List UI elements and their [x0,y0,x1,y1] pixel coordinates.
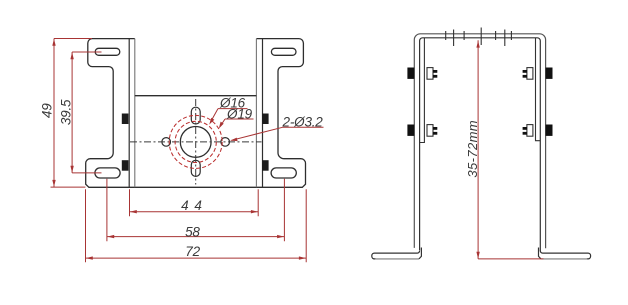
left web edge line [420,38,425,143]
vertical center line [195,99,197,185]
dim 49 extension bottom [51,186,86,188]
bolt right row2 nut [523,125,533,137]
dim 58 line [107,236,285,238]
right plate edge vertical line [255,39,257,188]
dim 39.5 line [71,52,73,173]
leader 2-dia3.2 [232,127,324,140]
leader dia16 [210,109,247,123]
svg-text:58: 58 [185,224,200,239]
right foot corner chamfer [539,248,541,259]
dim 39.5 extension bottom [72,172,101,174]
right wing top slot [271,48,296,55]
dim 72 line [86,257,307,259]
top mounting slot [191,107,200,124]
bolt circle dia 19 dashed [169,115,222,168]
left foot corner chamfer [419,248,421,259]
dim 58 extensions [107,179,285,241]
bracket outer contour (wings + feet + bottom) [86,39,306,188]
dim 72 extensions [86,189,307,262]
left wing clamp tab lower [122,160,129,171]
svg-text:49: 49 [40,103,55,118]
right foot bottom surface [541,258,587,260]
plate top edge [135,95,257,97]
svg-text:4 4: 4 4 [181,198,203,213]
bolt circle dia 16 dashed [175,121,216,162]
svg-text:39.5: 39.5 [58,99,73,125]
svg-text:2-Ø3.2: 2-Ø3.2 [282,114,324,129]
left wing clamp tab upper [122,114,129,125]
bolt left row2 head [407,125,414,136]
dim 44 line [130,211,259,213]
bolt right row1 head [546,68,553,79]
bolt right row2 head [546,125,553,136]
left foot slot [95,168,120,178]
dim 44 extensions [130,189,259,216]
right web edge line [536,38,541,141]
dim 49 line [53,39,55,188]
left foot bottom surface [375,258,419,260]
right foot top surface [540,251,590,259]
bolt left row1 head [407,68,414,79]
center hole circle [180,126,211,157]
dim 49 extension top [54,38,92,40]
bolt left row1 nut [427,68,437,80]
dim 35-72 line [477,40,479,259]
right wing clamp tab upper [262,114,269,125]
bolt left row2 nut [427,125,437,137]
side inner contour [420,38,541,251]
right 3.2 hole [221,138,230,147]
svg-text:35-72mm: 35-72mm [465,120,480,178]
side outer contour [414,34,545,249]
svg-text:72: 72 [185,244,200,259]
dim 35-72 bottom extension [478,258,543,260]
dim 39.5 extension top [72,51,101,53]
right wing clamp tab lower [262,160,269,171]
bolt right row1 nut [523,68,533,80]
left 3.2 hole [162,138,171,147]
right foot slot [271,168,296,178]
leader dia19 [220,119,253,127]
horizontal center line [130,141,262,143]
left wing inner vertical line [128,39,130,188]
slot tick marks on top web [446,28,512,47]
bottom mounting slot [191,160,200,176]
svg-text:Ø19: Ø19 [226,106,253,121]
left plate edge vertical line [134,39,136,188]
left foot top surface [372,251,420,259]
left wing top slot [95,48,120,55]
right wing inner vertical line [262,39,264,188]
